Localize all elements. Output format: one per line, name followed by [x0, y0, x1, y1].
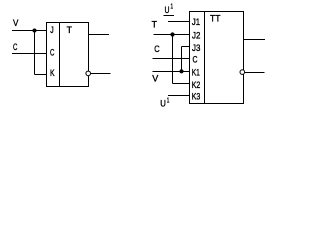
svg-text:V: V — [13, 18, 19, 29]
svg-text:TT: TT — [210, 14, 221, 25]
svg-text:K: K — [50, 68, 55, 79]
svg-text:C: C — [13, 42, 17, 53]
svg-text:U: U — [160, 99, 166, 110]
svg-text:J: J — [50, 25, 54, 36]
svg-text:U: U — [165, 5, 170, 16]
svg-text:1: 1 — [167, 98, 170, 105]
svg-text:T: T — [152, 20, 158, 31]
svg-text:C: C — [193, 55, 198, 66]
svg-text:J3: J3 — [192, 43, 200, 54]
svg-text:T: T — [67, 25, 73, 36]
svg-text:K1: K1 — [192, 68, 200, 79]
svg-text:K3: K3 — [192, 92, 201, 103]
svg-text:V: V — [152, 74, 159, 85]
svg-text:K2: K2 — [192, 80, 201, 91]
svg-text:C: C — [154, 44, 159, 55]
svg-text:J2: J2 — [192, 30, 200, 41]
svg-text:C: C — [50, 48, 54, 59]
svg-text:J1: J1 — [192, 17, 200, 28]
svg-text:1: 1 — [171, 3, 174, 10]
